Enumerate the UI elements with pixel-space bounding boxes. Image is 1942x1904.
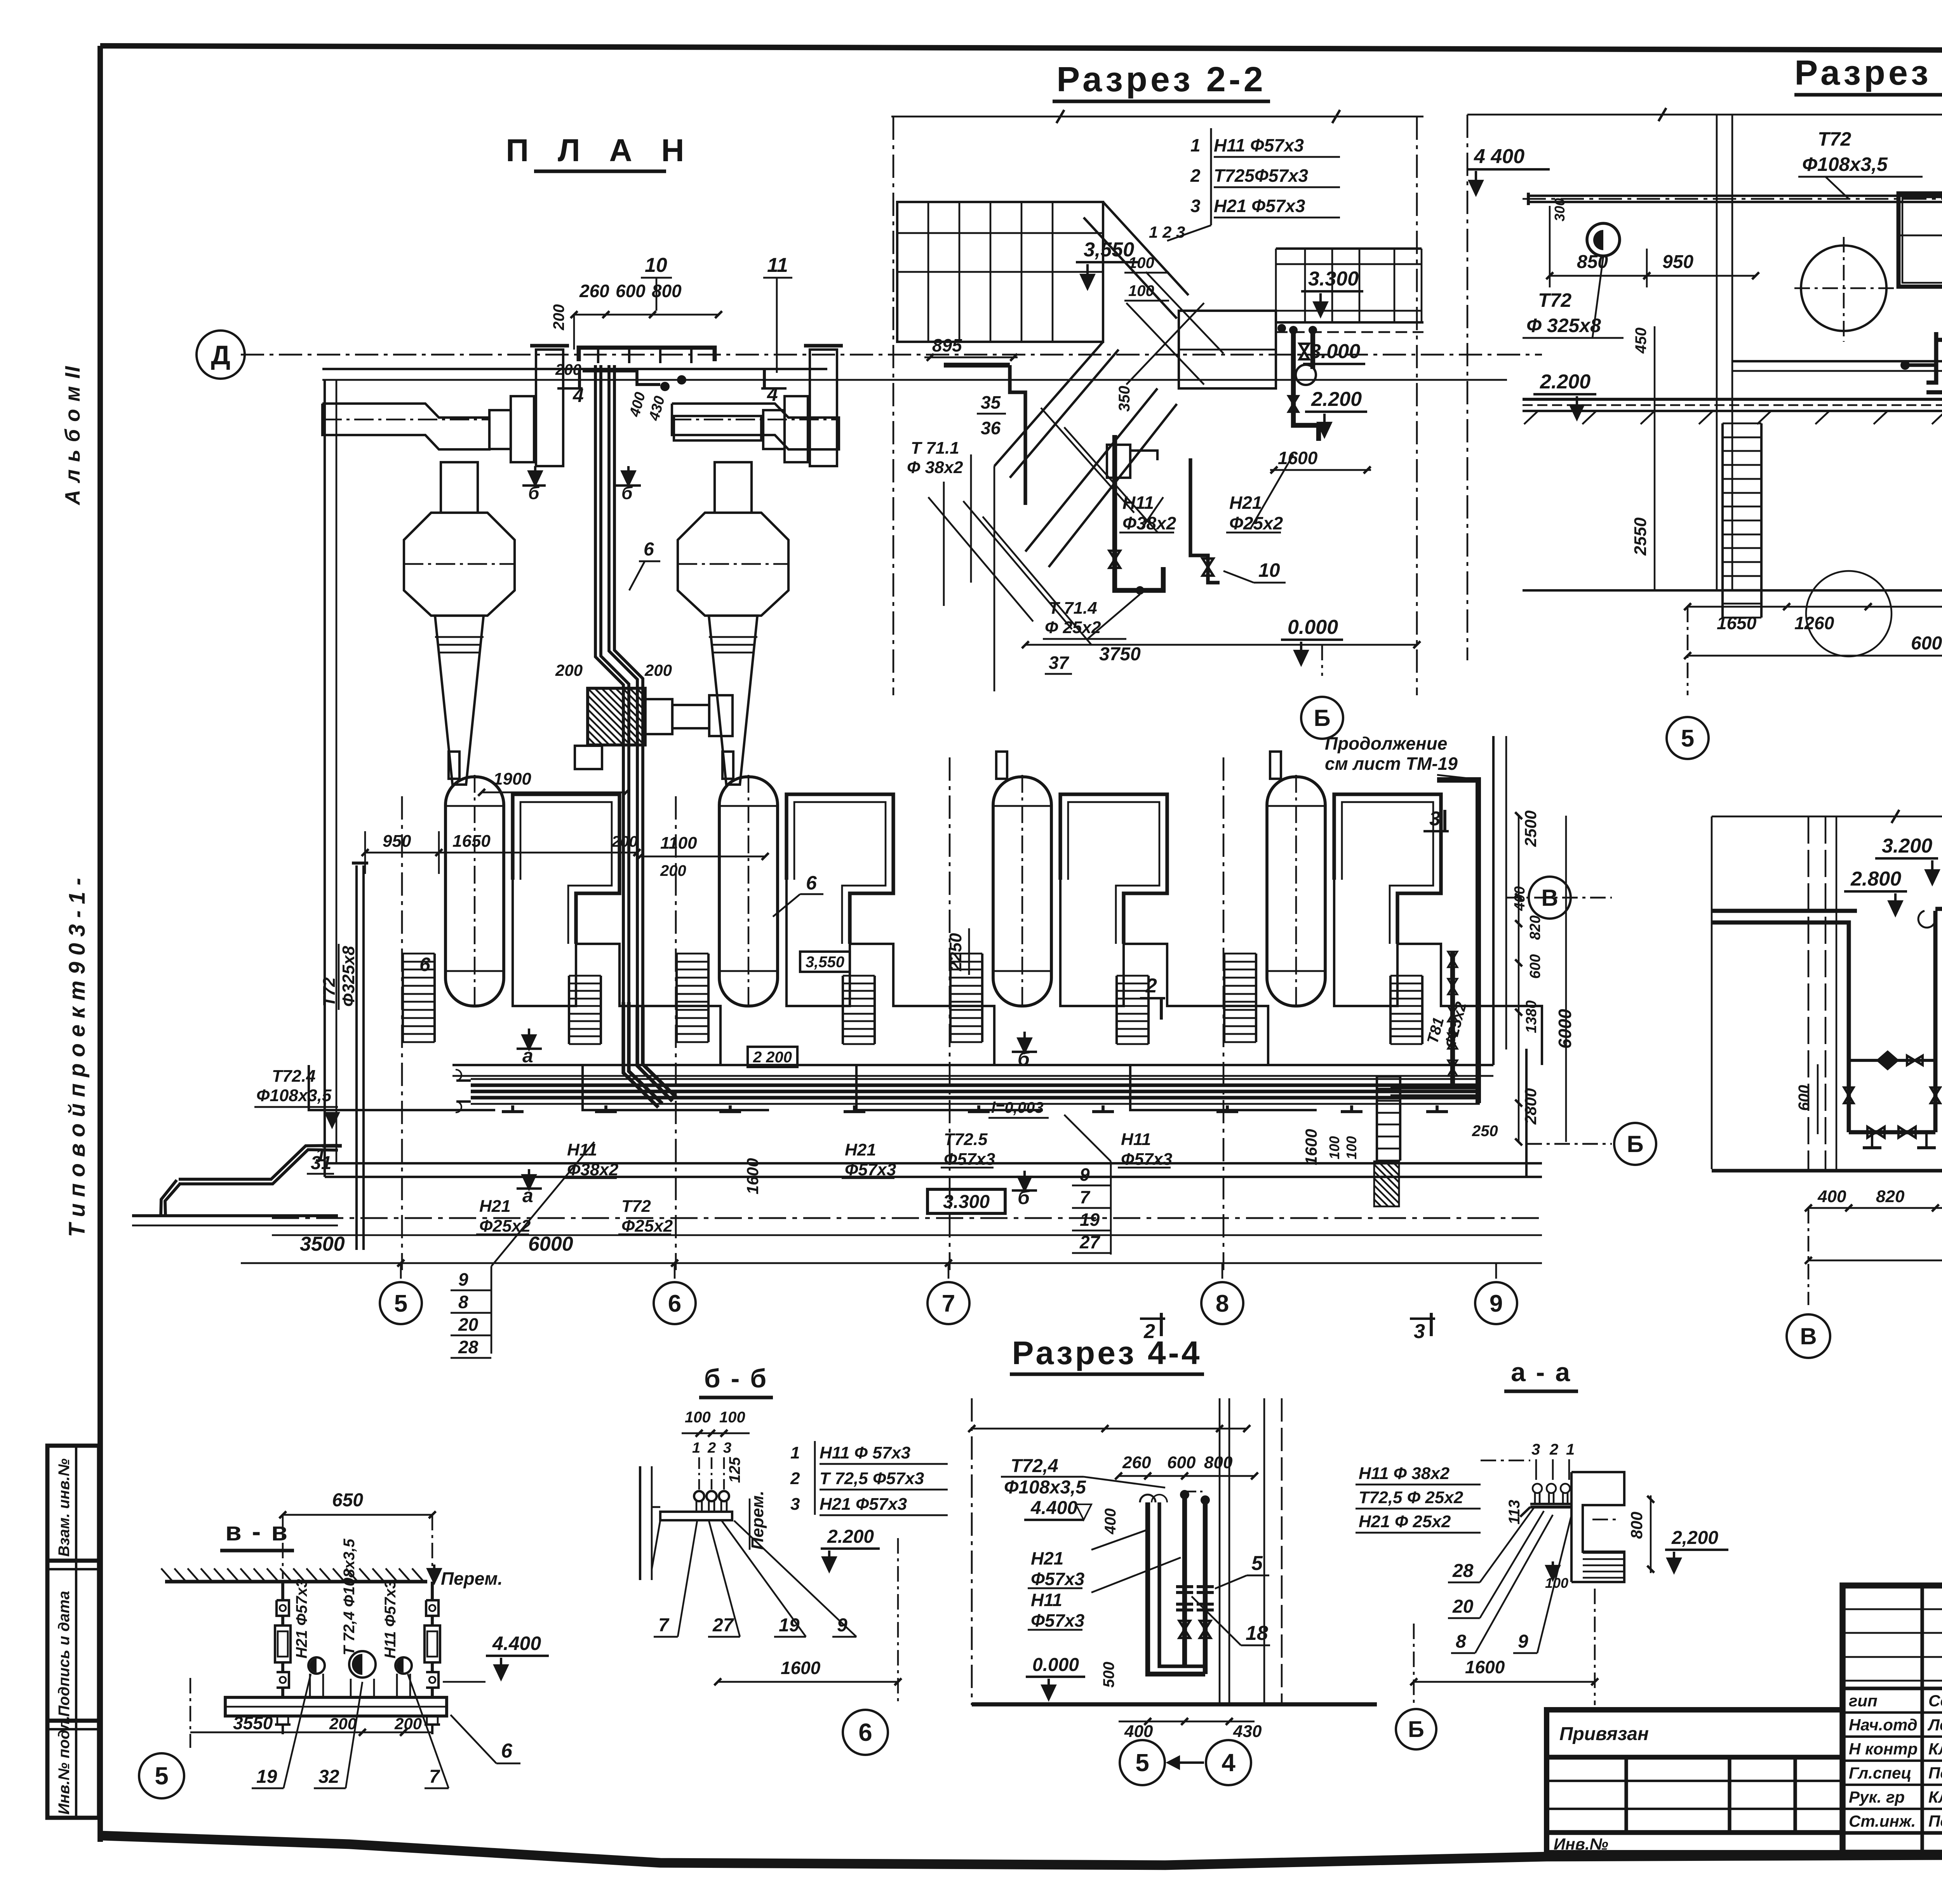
pipe rack left end hooks <box>456 1079 471 1082</box>
section 4-4 pipes <box>1148 1502 1205 1674</box>
title block left small rows <box>1843 1608 1942 1610</box>
boiler 1 platform step <box>309 1065 495 1110</box>
svg-text:19: 19 <box>1080 1210 1100 1230</box>
section v-v ceiling hatch <box>165 1580 427 1583</box>
svg-text:1260: 1260 <box>1794 613 1834 633</box>
svg-text:200: 200 <box>550 304 567 331</box>
section v-v dim 3550 200 200 <box>190 1732 432 1733</box>
section a-a wall channel <box>1571 1472 1624 1582</box>
section 2-2 small equipment box <box>1107 445 1130 478</box>
section a-a pipes with caps <box>1533 1484 1542 1493</box>
section 3-3 ground line <box>1712 1169 1942 1172</box>
boiler 2 platform step <box>583 1065 769 1110</box>
svg-text:11: 11 <box>767 254 788 277</box>
svg-text:3500: 3500 <box>300 1233 345 1255</box>
svg-text:Т72: Т72 <box>1538 289 1571 311</box>
pipe rack support tees <box>502 1110 524 1113</box>
svg-text:430: 430 <box>1233 1722 1262 1741</box>
svg-text:3: 3 <box>790 1495 800 1514</box>
svg-text:100: 100 <box>719 1409 745 1426</box>
section b-b pipes on bracket <box>694 1491 704 1501</box>
section 4-4 top dimension line <box>972 1428 1247 1430</box>
svg-text:28: 28 <box>458 1337 479 1357</box>
svg-text:Т и п о в о й п р о е к т: Т и п о в о й п р о е к т 9 0 3 - 1 - <box>64 878 90 1237</box>
svg-text:6: 6 <box>858 1718 872 1746</box>
svg-text:0.000: 0.000 <box>1032 1655 1079 1675</box>
svg-text:6: 6 <box>668 1290 681 1317</box>
svg-text:5: 5 <box>394 1290 407 1317</box>
svg-text:Н21 Ф57х3: Н21 Ф57х3 <box>820 1495 907 1514</box>
plan mazut pipe bundle vertical run <box>601 365 629 1002</box>
svg-text:6: 6 <box>806 872 817 894</box>
svg-text:2: 2 <box>707 1440 716 1456</box>
section 4-4 flanges <box>1176 1585 1193 1588</box>
svg-text:Портной: Портной <box>1928 1764 1942 1782</box>
svg-text:2.200: 2.200 <box>1311 388 1362 411</box>
svg-text:3: 3 <box>723 1440 731 1456</box>
svg-text:1600: 1600 <box>1465 1657 1505 1677</box>
section 1-1 grid circles 5 6 <box>1687 607 1689 695</box>
svg-text:6000: 6000 <box>1911 633 1942 654</box>
svg-text:6000: 6000 <box>1555 1009 1575 1049</box>
svg-text:20: 20 <box>458 1314 479 1335</box>
svg-text:Т 71.1: Т 71.1 <box>911 439 959 458</box>
svg-text:600: 600 <box>616 281 646 301</box>
svg-text:260: 260 <box>1122 1453 1151 1472</box>
section a-a lower hatch <box>1583 1552 1624 1554</box>
boiler 3 platform step <box>856 1065 1043 1110</box>
attachment box Привязан <box>1547 1710 1843 1853</box>
section 3-3 grid circles В Б <box>1808 1208 1810 1305</box>
svg-text:250: 250 <box>1472 1123 1498 1140</box>
section 1-1 platform floor band <box>1523 398 1942 401</box>
svg-text:6000: 6000 <box>528 1233 573 1255</box>
section 2-2 stair lower flight <box>1025 388 1157 552</box>
svg-text:Поздеева: Поздеева <box>1928 1812 1942 1830</box>
svg-text:Продолжение: Продолжение <box>1325 733 1447 754</box>
chimney stub 1 <box>536 350 563 466</box>
svg-text:Н11: Н11 <box>1031 1590 1062 1610</box>
svg-text:Н21 Ф57х3: Н21 Ф57х3 <box>1214 196 1305 216</box>
section a-a bracket <box>1530 1505 1571 1509</box>
plan boxed level 3,550 <box>800 952 850 972</box>
boiler 1 base platform <box>513 880 720 1065</box>
svg-text:32: 32 <box>318 1767 339 1787</box>
svg-text:2500: 2500 <box>1521 811 1540 847</box>
boiler 4 left ladder <box>1223 954 1225 1042</box>
svg-text:Ф57х3: Ф57х3 <box>1031 1610 1085 1631</box>
svg-text:10: 10 <box>1258 559 1280 581</box>
svg-text:А л ь б о м II: А л ь б о м II <box>61 365 84 506</box>
svg-text:7: 7 <box>658 1615 670 1636</box>
svg-text:Ф25х2: Ф25х2 <box>479 1217 531 1236</box>
section 1-1 mid platform band center <box>1732 360 1942 362</box>
svg-text:1600: 1600 <box>1278 448 1318 468</box>
svg-text:19: 19 <box>779 1615 800 1636</box>
svg-text:Перем.: Перем. <box>441 1568 503 1589</box>
section 1-1 ladders <box>1721 423 1724 618</box>
svg-text:Ф108х3,5: Ф108х3,5 <box>256 1086 332 1105</box>
svg-text:Разрез 2-2: Разрез 2-2 <box>1056 60 1266 99</box>
svg-text:6: 6 <box>501 1740 513 1762</box>
plan main pipe rack horizontal lines <box>471 1078 1480 1080</box>
svg-text:Ф57х3: Ф57х3 <box>944 1150 995 1169</box>
svg-text:Инв.№ подл.: Инв.№ подл. <box>56 1716 73 1815</box>
boiler 4 drum <box>1267 777 1325 1006</box>
section 4-4 dims 400 430 <box>1119 1721 1255 1723</box>
boiler 3 base platform <box>1060 880 1268 1065</box>
svg-text:800: 800 <box>1627 1512 1646 1539</box>
boiler 4 platform step <box>1130 1065 1317 1110</box>
svg-text:400: 400 <box>1124 1722 1153 1741</box>
svg-text:6: 6 <box>644 539 654 560</box>
section 1-1 flange circle <box>1587 223 1620 256</box>
svg-text:350: 350 <box>1116 386 1133 412</box>
svg-text:3.300: 3.300 <box>943 1192 990 1212</box>
section 2-2 right floor band <box>1276 321 1423 324</box>
boiler 3 grid line <box>949 757 951 1270</box>
svg-text:В: В <box>1541 885 1558 911</box>
svg-text:Д: Д <box>211 340 230 370</box>
plan pipe bundle lower S-bend <box>629 1002 662 1103</box>
plan left riser pipe T72 <box>362 865 365 1250</box>
svg-text:2800: 2800 <box>1521 1088 1540 1125</box>
section b-b dim 1600 <box>718 1681 898 1683</box>
svg-text:2 200: 2 200 <box>753 1049 792 1066</box>
boiler 3 drum <box>993 777 1051 1006</box>
boiler 4 right ladder <box>1389 976 1392 1044</box>
svg-text:2: 2 <box>790 1469 800 1488</box>
svg-text:650: 650 <box>332 1490 363 1511</box>
plan corner hatched box <box>1374 1161 1399 1206</box>
svg-text:35: 35 <box>981 392 1001 412</box>
svg-text:125: 125 <box>726 1457 743 1483</box>
section 3-3 left valve pair vertical <box>1844 1088 1853 1095</box>
svg-text:1: 1 <box>692 1440 700 1456</box>
boiler 2 left ladder <box>675 954 678 1042</box>
boiler 4 drum top pipe <box>1270 752 1281 779</box>
fan column small rect <box>575 746 602 769</box>
svg-text:1600: 1600 <box>1302 1129 1320 1165</box>
title block signature rows <box>1843 1686 1942 1690</box>
cyclone 1 cone <box>435 616 484 785</box>
section 2-2 right railing <box>1276 247 1422 250</box>
svg-text:Н21 Ф 25х2: Н21 Ф 25х2 <box>1359 1512 1451 1531</box>
svg-text:1900: 1900 <box>493 769 531 788</box>
svg-text:1650: 1650 <box>452 832 491 851</box>
svg-text:820: 820 <box>1527 915 1544 940</box>
flue duct 1 connector <box>489 410 511 449</box>
plan right wall ladder strip <box>1376 1077 1378 1161</box>
section 1-1 central window grid <box>1898 193 1942 287</box>
svg-text:Т 72,5 Ф57х3: Т 72,5 Ф57х3 <box>820 1469 924 1488</box>
svg-text:Ф 325х8: Ф 325х8 <box>1526 315 1601 336</box>
svg-text:200: 200 <box>660 862 686 879</box>
svg-text:8: 8 <box>1216 1290 1229 1317</box>
section 1-1 dim 6000 <box>1688 655 1942 657</box>
svg-text:200: 200 <box>611 833 638 850</box>
plan left wall <box>324 380 326 1177</box>
section 4-4 floor <box>972 1702 1377 1707</box>
plan top wall <box>322 368 827 370</box>
svg-text:Н21: Н21 <box>845 1140 876 1159</box>
boiler 1 grid line <box>401 796 403 1270</box>
svg-text:Привязан: Привязан <box>1559 1724 1649 1744</box>
plan grid circle Б right <box>1526 1143 1612 1145</box>
svg-text:100: 100 <box>1326 1136 1342 1159</box>
svg-text:Разрез 4-4: Разрез 4-4 <box>1012 1335 1202 1371</box>
boiler 2 drum <box>719 777 778 1006</box>
grid axis Д dash-dot line <box>241 354 1542 356</box>
boiler 4 grid line <box>1223 757 1225 1270</box>
sheet border frame <box>100 46 1942 52</box>
section 2-2 left railing frame <box>897 202 1103 342</box>
section 2-2 bottom grid circle Б <box>1321 645 1323 676</box>
svg-text:4.400: 4.400 <box>492 1632 541 1654</box>
svg-text:2550: 2550 <box>1631 517 1650 556</box>
svg-text:10: 10 <box>645 254 667 277</box>
svg-text:3,550: 3,550 <box>806 954 844 971</box>
svg-text:Соловьев: Соловьев <box>1928 1692 1942 1710</box>
section v-v hanger rods <box>281 1582 284 1600</box>
plan right pipe connection to rack <box>1390 1086 1478 1089</box>
svg-text:7: 7 <box>942 1290 955 1317</box>
svg-text:гип: гип <box>1849 1692 1878 1710</box>
flue duct 2 connector <box>763 410 785 449</box>
section mark 1 bottom-left <box>322 1144 342 1147</box>
svg-text:Б: Б <box>1627 1131 1643 1157</box>
svg-text:36: 36 <box>981 418 1001 438</box>
svg-text:Ф57х3: Ф57х3 <box>845 1160 896 1179</box>
plan dimension 3500 6000 row <box>272 1217 1542 1219</box>
svg-text:200: 200 <box>555 361 581 378</box>
section 1-1 floor hatch ticks <box>1524 411 1538 424</box>
fan outlet rects <box>645 699 672 734</box>
section 2-2 thick pipe left horizontal <box>944 363 1010 367</box>
svg-text:П Л А Н: П Л А Н <box>506 133 694 168</box>
svg-text:Т72: Т72 <box>1818 128 1851 150</box>
svg-text:Т72,5 Ф 25х2: Т72,5 Ф 25х2 <box>1359 1488 1463 1507</box>
svg-text:500: 500 <box>1100 1662 1117 1688</box>
svg-text:400: 400 <box>1102 1508 1119 1535</box>
svg-text:Т72: Т72 <box>621 1197 651 1216</box>
svg-text:а - а: а - а <box>1511 1358 1571 1387</box>
boiler 3 left ladder <box>949 954 952 1042</box>
svg-text:200: 200 <box>394 1714 422 1733</box>
section 4-4 grid circles 5 4 <box>1120 1740 1165 1785</box>
plan interior wall below rack <box>452 1064 1493 1066</box>
svg-text:Т72,4: Т72,4 <box>1011 1456 1058 1476</box>
boiler 4 furnace outline <box>1334 794 1441 944</box>
section 4-4 right wall <box>1219 1398 1221 1704</box>
svg-text:100: 100 <box>1128 254 1154 272</box>
svg-text:200: 200 <box>644 661 672 679</box>
plan boxed level 2 200 <box>748 1047 797 1067</box>
cyclone 1 neck <box>441 462 478 513</box>
svg-text:9: 9 <box>837 1615 847 1636</box>
section 2-2 stair cross braces <box>1126 303 1204 385</box>
svg-text:18: 18 <box>1246 1622 1268 1645</box>
svg-text:Ф 38х2: Ф 38х2 <box>907 458 963 477</box>
svg-text:Н21: Н21 <box>1031 1548 1063 1568</box>
plan right valves chain T81 <box>1448 952 1457 959</box>
svg-text:б - б: б - б <box>704 1364 768 1393</box>
section 3-3 left wall <box>1711 816 1713 1169</box>
svg-text:2: 2 <box>1190 165 1201 186</box>
svg-text:Подпись и дата: Подпись и дата <box>56 1591 73 1717</box>
section 3-3 bottom dims 400 820 600 1380 <box>1808 1207 1942 1209</box>
svg-text:1600: 1600 <box>743 1158 762 1194</box>
svg-text:1380: 1380 <box>1523 1000 1540 1033</box>
section b-b bracket arm <box>660 1512 732 1520</box>
section b-b grid circle 6 <box>843 1710 888 1755</box>
svg-text:1: 1 <box>1190 135 1201 155</box>
svg-text:260: 260 <box>579 281 609 301</box>
svg-text:Н11: Н11 <box>1121 1130 1151 1149</box>
svg-text:Н11 Ф57х3: Н11 Ф57х3 <box>1214 135 1304 155</box>
svg-text:Ф108х3,5: Ф108х3,5 <box>1802 153 1888 175</box>
svg-text:см лист ТМ-19: см лист ТМ-19 <box>1325 754 1458 774</box>
section v-v beam <box>225 1697 447 1716</box>
section v-v beam bolts <box>277 1716 288 1725</box>
svg-text:Н контр: Н контр <box>1849 1740 1918 1758</box>
svg-text:3: 3 <box>1414 1320 1425 1343</box>
section 1-1 central boiler drum circle <box>1801 245 1886 331</box>
section 3-3 support tees <box>1863 1146 1881 1149</box>
svg-text:Т 71.4: Т 71.4 <box>1049 599 1097 618</box>
economizer 1 horizontal capsule <box>322 404 489 449</box>
svg-text:Ф25х2: Ф25х2 <box>621 1217 673 1236</box>
svg-text:Т72: Т72 <box>320 977 339 1007</box>
boiler 1 right ladder <box>568 976 570 1044</box>
boiler 1 furnace outline <box>513 794 619 944</box>
svg-text:2.200: 2.200 <box>827 1526 874 1547</box>
svg-text:Т72.5: Т72.5 <box>944 1130 988 1149</box>
svg-text:Н21 Ф57х3: Н21 Ф57х3 <box>293 1579 310 1659</box>
boiler 2 right ladder <box>842 976 844 1044</box>
boiler 2 base platform <box>787 880 994 1065</box>
plan bottom exterior wall <box>325 1162 1542 1164</box>
grid circle Д <box>197 331 245 379</box>
svg-text:2,200: 2,200 <box>1671 1528 1718 1548</box>
svg-text:9: 9 <box>1490 1290 1503 1317</box>
svg-text:Н11: Н11 <box>1122 493 1154 513</box>
svg-text:3: 3 <box>1190 196 1201 216</box>
plan bottom dimension chain line <box>241 1262 1542 1264</box>
svg-text:800: 800 <box>1204 1453 1233 1472</box>
svg-text:2250: 2250 <box>946 933 965 971</box>
svg-text:Т725Ф57х3: Т725Ф57х3 <box>1214 165 1309 186</box>
svg-text:2.800: 2.800 <box>1850 868 1901 890</box>
section 2-2 dim 3750 <box>1025 644 1417 646</box>
svg-text:Т 72,4 Ф108х3,5: Т 72,4 Ф108х3,5 <box>341 1539 358 1655</box>
section 2-2 thick pipe U loop <box>1115 435 1163 590</box>
cyclone 2 neck <box>715 462 752 513</box>
svg-text:600: 600 <box>1527 954 1544 979</box>
svg-text:27: 27 <box>712 1615 734 1636</box>
svg-text:0.000: 0.000 <box>1288 616 1338 639</box>
svg-text:2.200: 2.200 <box>1540 371 1590 393</box>
svg-text:4: 4 <box>767 383 778 405</box>
svg-text:1600: 1600 <box>781 1658 821 1678</box>
svg-text:Перем.: Перем. <box>748 1491 767 1550</box>
section v-v grid circle 5 <box>139 1753 184 1798</box>
svg-text:300: 300 <box>1552 198 1568 221</box>
svg-text:Ф325х8: Ф325х8 <box>339 946 358 1007</box>
svg-text:Инв.№: Инв.№ <box>1554 1835 1608 1853</box>
section 2-2 thick pipe right risers <box>1293 328 1319 441</box>
plan top bracket: mazut station <box>579 348 715 361</box>
svg-text:19: 19 <box>256 1767 277 1787</box>
svg-text:200: 200 <box>555 661 583 679</box>
svg-text:3550: 3550 <box>233 1713 273 1733</box>
svg-text:950: 950 <box>1662 252 1693 272</box>
section a-a dim 1600 <box>1414 1681 1595 1683</box>
svg-text:Н11 Ф57х3: Н11 Ф57х3 <box>382 1580 399 1659</box>
svg-text:Взам. инв.№: Взам. инв.№ <box>56 1458 73 1557</box>
section 3-3 dim 6000 <box>1808 1260 1942 1262</box>
svg-text:7: 7 <box>1080 1187 1091 1207</box>
cyclone 1 octagon body <box>404 513 515 616</box>
section 3-3 relief valve diamond <box>1876 1050 1899 1070</box>
mazut inlet elbow <box>165 1183 181 1216</box>
svg-text:850: 850 <box>1577 252 1608 272</box>
svg-text:Н21: Н21 <box>479 1197 511 1216</box>
svg-text:5: 5 <box>155 1762 169 1790</box>
plan right outer wall <box>1525 1049 1528 1177</box>
svg-text:37: 37 <box>1049 653 1070 673</box>
svg-text:Ф25х2: Ф25х2 <box>1229 513 1283 533</box>
title block signature columns <box>1920 1586 1924 1853</box>
section 2-2 right boundary <box>1416 117 1418 695</box>
svg-text:4 400: 4 400 <box>1474 145 1524 168</box>
svg-text:Лепендин: Лепендин <box>1927 1716 1942 1734</box>
section 2-2 landing platform <box>1179 311 1276 388</box>
svg-text:9: 9 <box>1518 1631 1528 1652</box>
svg-text:3750: 3750 <box>1099 644 1141 665</box>
svg-text:3.000: 3.000 <box>1310 340 1360 363</box>
svg-text:В: В <box>1800 1323 1817 1349</box>
section 3-3 floor 2.800 line <box>1712 909 1857 913</box>
plan mazut inlet pipes bottom left <box>179 1150 338 1184</box>
section 2-2 top chain line <box>891 116 1423 118</box>
section 4-4 circles arrow <box>1169 1761 1204 1764</box>
section 1-1 ground line <box>1523 589 1942 592</box>
svg-text:1: 1 <box>315 1145 326 1166</box>
svg-text:i=0,003: i=0,003 <box>991 1099 1044 1116</box>
svg-text:4.400: 4.400 <box>1030 1498 1077 1518</box>
svg-text:5: 5 <box>1135 1749 1149 1777</box>
svg-text:в - в: в - в <box>225 1517 289 1546</box>
draft fan hatched box <box>588 688 645 745</box>
svg-text:100: 100 <box>1343 1136 1359 1159</box>
svg-text:100: 100 <box>685 1409 711 1426</box>
svg-text:Разрез 1-1: Разрез 1-1 <box>1794 54 1942 92</box>
svg-text:3,550: 3,550 <box>1084 238 1134 261</box>
svg-text:8: 8 <box>1456 1631 1466 1652</box>
boiler 4 base platform <box>1334 880 1542 1065</box>
svg-text:200: 200 <box>329 1714 357 1733</box>
svg-text:28: 28 <box>1452 1561 1474 1581</box>
svg-text:8: 8 <box>458 1292 468 1312</box>
section 2-2 lower left railing posts <box>943 482 945 606</box>
section 4-4 valves <box>1179 1621 1190 1629</box>
boiler 2 drum top pipe <box>722 752 733 779</box>
economizer 2 inlet duct <box>674 416 761 440</box>
svg-text:1100: 1100 <box>660 834 697 853</box>
svg-text:3.200: 3.200 <box>1882 835 1932 857</box>
svg-text:Ф38х2: Ф38х2 <box>567 1160 619 1179</box>
